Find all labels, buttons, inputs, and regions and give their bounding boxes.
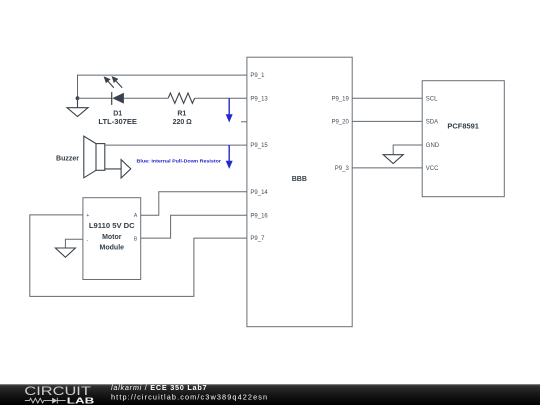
PCF8591 box bbox=[422, 81, 504, 197]
pin P9_7 bbox=[250, 236, 265, 242]
wire: BBB P9_20 to PCF8591 SDA bbox=[352, 120, 422, 122]
wire: BBB P9_19 to PCF8591 SCL bbox=[352, 97, 422, 99]
LED D1 symbol bbox=[105, 77, 124, 105]
ground (near LED) bbox=[67, 98, 88, 116]
svg-text:P9_20: P9_20 bbox=[331, 120, 349, 126]
svg-text:Motor: Motor bbox=[102, 234, 122, 241]
label R1 220 ohm bbox=[173, 110, 193, 126]
wire: motor + around left/bottom to BBB P9_7 bbox=[30, 215, 247, 297]
footer logo CIRCUIT bbox=[24, 386, 91, 398]
wire: PCF8591 GND to ground bbox=[393, 145, 422, 155]
svg-text:P9_1: P9_1 bbox=[250, 73, 265, 79]
footer url text bbox=[111, 392, 268, 401]
footer logo LAB bbox=[67, 396, 95, 405]
LED light arrow 2 bbox=[112, 77, 122, 88]
svg-text:http://circuitlab.com/c3w389q4: http://circuitlab.com/c3w389q422esn bbox=[111, 392, 268, 401]
svg-text:P9_3: P9_3 bbox=[335, 166, 350, 172]
svg-text:VCC: VCC bbox=[426, 166, 439, 172]
pin B of motor module bbox=[134, 236, 138, 242]
label PCF8591 bbox=[447, 123, 479, 130]
wire: motor B to BBB P9_16 bbox=[141, 215, 247, 238]
wire: R1 to BBB P9_13 bbox=[195, 97, 247, 99]
svg-text:A: A bbox=[134, 213, 138, 219]
svg-text:220 Ω: 220 Ω bbox=[173, 119, 193, 126]
wire: top rail from ground node to BBB P9_1 bbox=[77, 75, 247, 98]
wire: motor A to BBB P9_14 bbox=[141, 192, 247, 215]
ground (PCF8591) bbox=[383, 155, 403, 164]
footer logo squiggle (resistor + diode) bbox=[25, 398, 66, 404]
label L9110 5V DC Motor Module bbox=[89, 223, 135, 252]
svg-text:P9_13: P9_13 bbox=[250, 96, 268, 102]
pin P9_15 bbox=[250, 143, 268, 149]
wire: buzzer to BBB P9_15 bbox=[105, 144, 247, 146]
pin stub (unlabeled, BBB left) bbox=[241, 121, 247, 123]
motor module box U (L9110) bbox=[83, 198, 141, 280]
svg-text:Buzzer: Buzzer bbox=[56, 155, 79, 162]
LED light arrow 1 bbox=[105, 77, 114, 88]
label Buzzer bbox=[56, 155, 79, 162]
pin VCC bbox=[426, 166, 439, 172]
svg-text:P9_14: P9_14 bbox=[250, 190, 268, 196]
buzzer symbol bbox=[84, 136, 131, 178]
node: junction dot at ground/LED bbox=[76, 96, 80, 100]
pin GND bbox=[426, 143, 440, 149]
svg-text:-: - bbox=[87, 237, 89, 243]
pin P9_13 bbox=[250, 96, 268, 102]
svg-text:+: + bbox=[86, 213, 89, 219]
svg-text:SDA: SDA bbox=[426, 120, 438, 126]
svg-text:D1: D1 bbox=[113, 110, 122, 117]
pin P9_19 bbox=[331, 96, 349, 102]
svg-text:R1: R1 bbox=[177, 110, 186, 117]
wire: motor - to ground bbox=[65, 239, 83, 248]
svg-text:P9_7: P9_7 bbox=[250, 236, 265, 242]
svg-text:GND: GND bbox=[426, 143, 440, 149]
svg-text:PCF8591: PCF8591 bbox=[447, 123, 479, 130]
pin P9_3 bbox=[335, 166, 350, 172]
pin P9_16 bbox=[250, 213, 268, 219]
pin SDA bbox=[426, 120, 438, 126]
pin - of motor module bbox=[87, 237, 89, 243]
pin P9_14 bbox=[250, 190, 268, 196]
wire: ground node to LED cathode bbox=[78, 97, 112, 99]
pin P9_1 bbox=[250, 73, 265, 79]
resistor R1 bbox=[168, 93, 194, 103]
wire: BBB P9_3 to PCF8591 VCC bbox=[352, 167, 422, 169]
svg-text:Blue: Internal Pull-Down Resis: Blue: Internal Pull-Down Resistor bbox=[137, 159, 222, 164]
svg-text:P9_15: P9_15 bbox=[250, 143, 268, 149]
svg-text:LTL-307EE: LTL-307EE bbox=[98, 119, 137, 126]
pin SCL bbox=[426, 96, 438, 102]
svg-text:P9_19: P9_19 bbox=[331, 96, 349, 102]
label BBB bbox=[292, 176, 307, 183]
pin P9_20 bbox=[331, 120, 349, 126]
label D1 bbox=[98, 110, 137, 126]
pin A of motor module bbox=[134, 213, 138, 219]
svg-text:L9110 5V DC: L9110 5V DC bbox=[89, 223, 135, 230]
svg-text:B: B bbox=[134, 236, 138, 242]
annotation: blue pull-down arrow 1 bbox=[226, 98, 233, 122]
BBB box bbox=[247, 57, 352, 327]
annotation: blue pull-down arrow 2 bbox=[226, 145, 233, 169]
svg-text:BBB: BBB bbox=[292, 176, 307, 183]
footer title text bbox=[111, 383, 207, 392]
pin + of motor module bbox=[86, 213, 89, 219]
ground (motor module) bbox=[55, 248, 75, 257]
svg-text:lalkarmi / ECE 350 Lab7: lalkarmi / ECE 350 Lab7 bbox=[111, 383, 207, 392]
svg-text:LAB: LAB bbox=[67, 396, 95, 405]
svg-text:Module: Module bbox=[100, 245, 125, 252]
wire: LED anode to R1 bbox=[124, 97, 168, 99]
annotation: blue note text bbox=[137, 159, 222, 164]
svg-text:P9_16: P9_16 bbox=[250, 213, 268, 219]
svg-text:SCL: SCL bbox=[426, 96, 438, 102]
footer bar bbox=[0, 384, 540, 405]
